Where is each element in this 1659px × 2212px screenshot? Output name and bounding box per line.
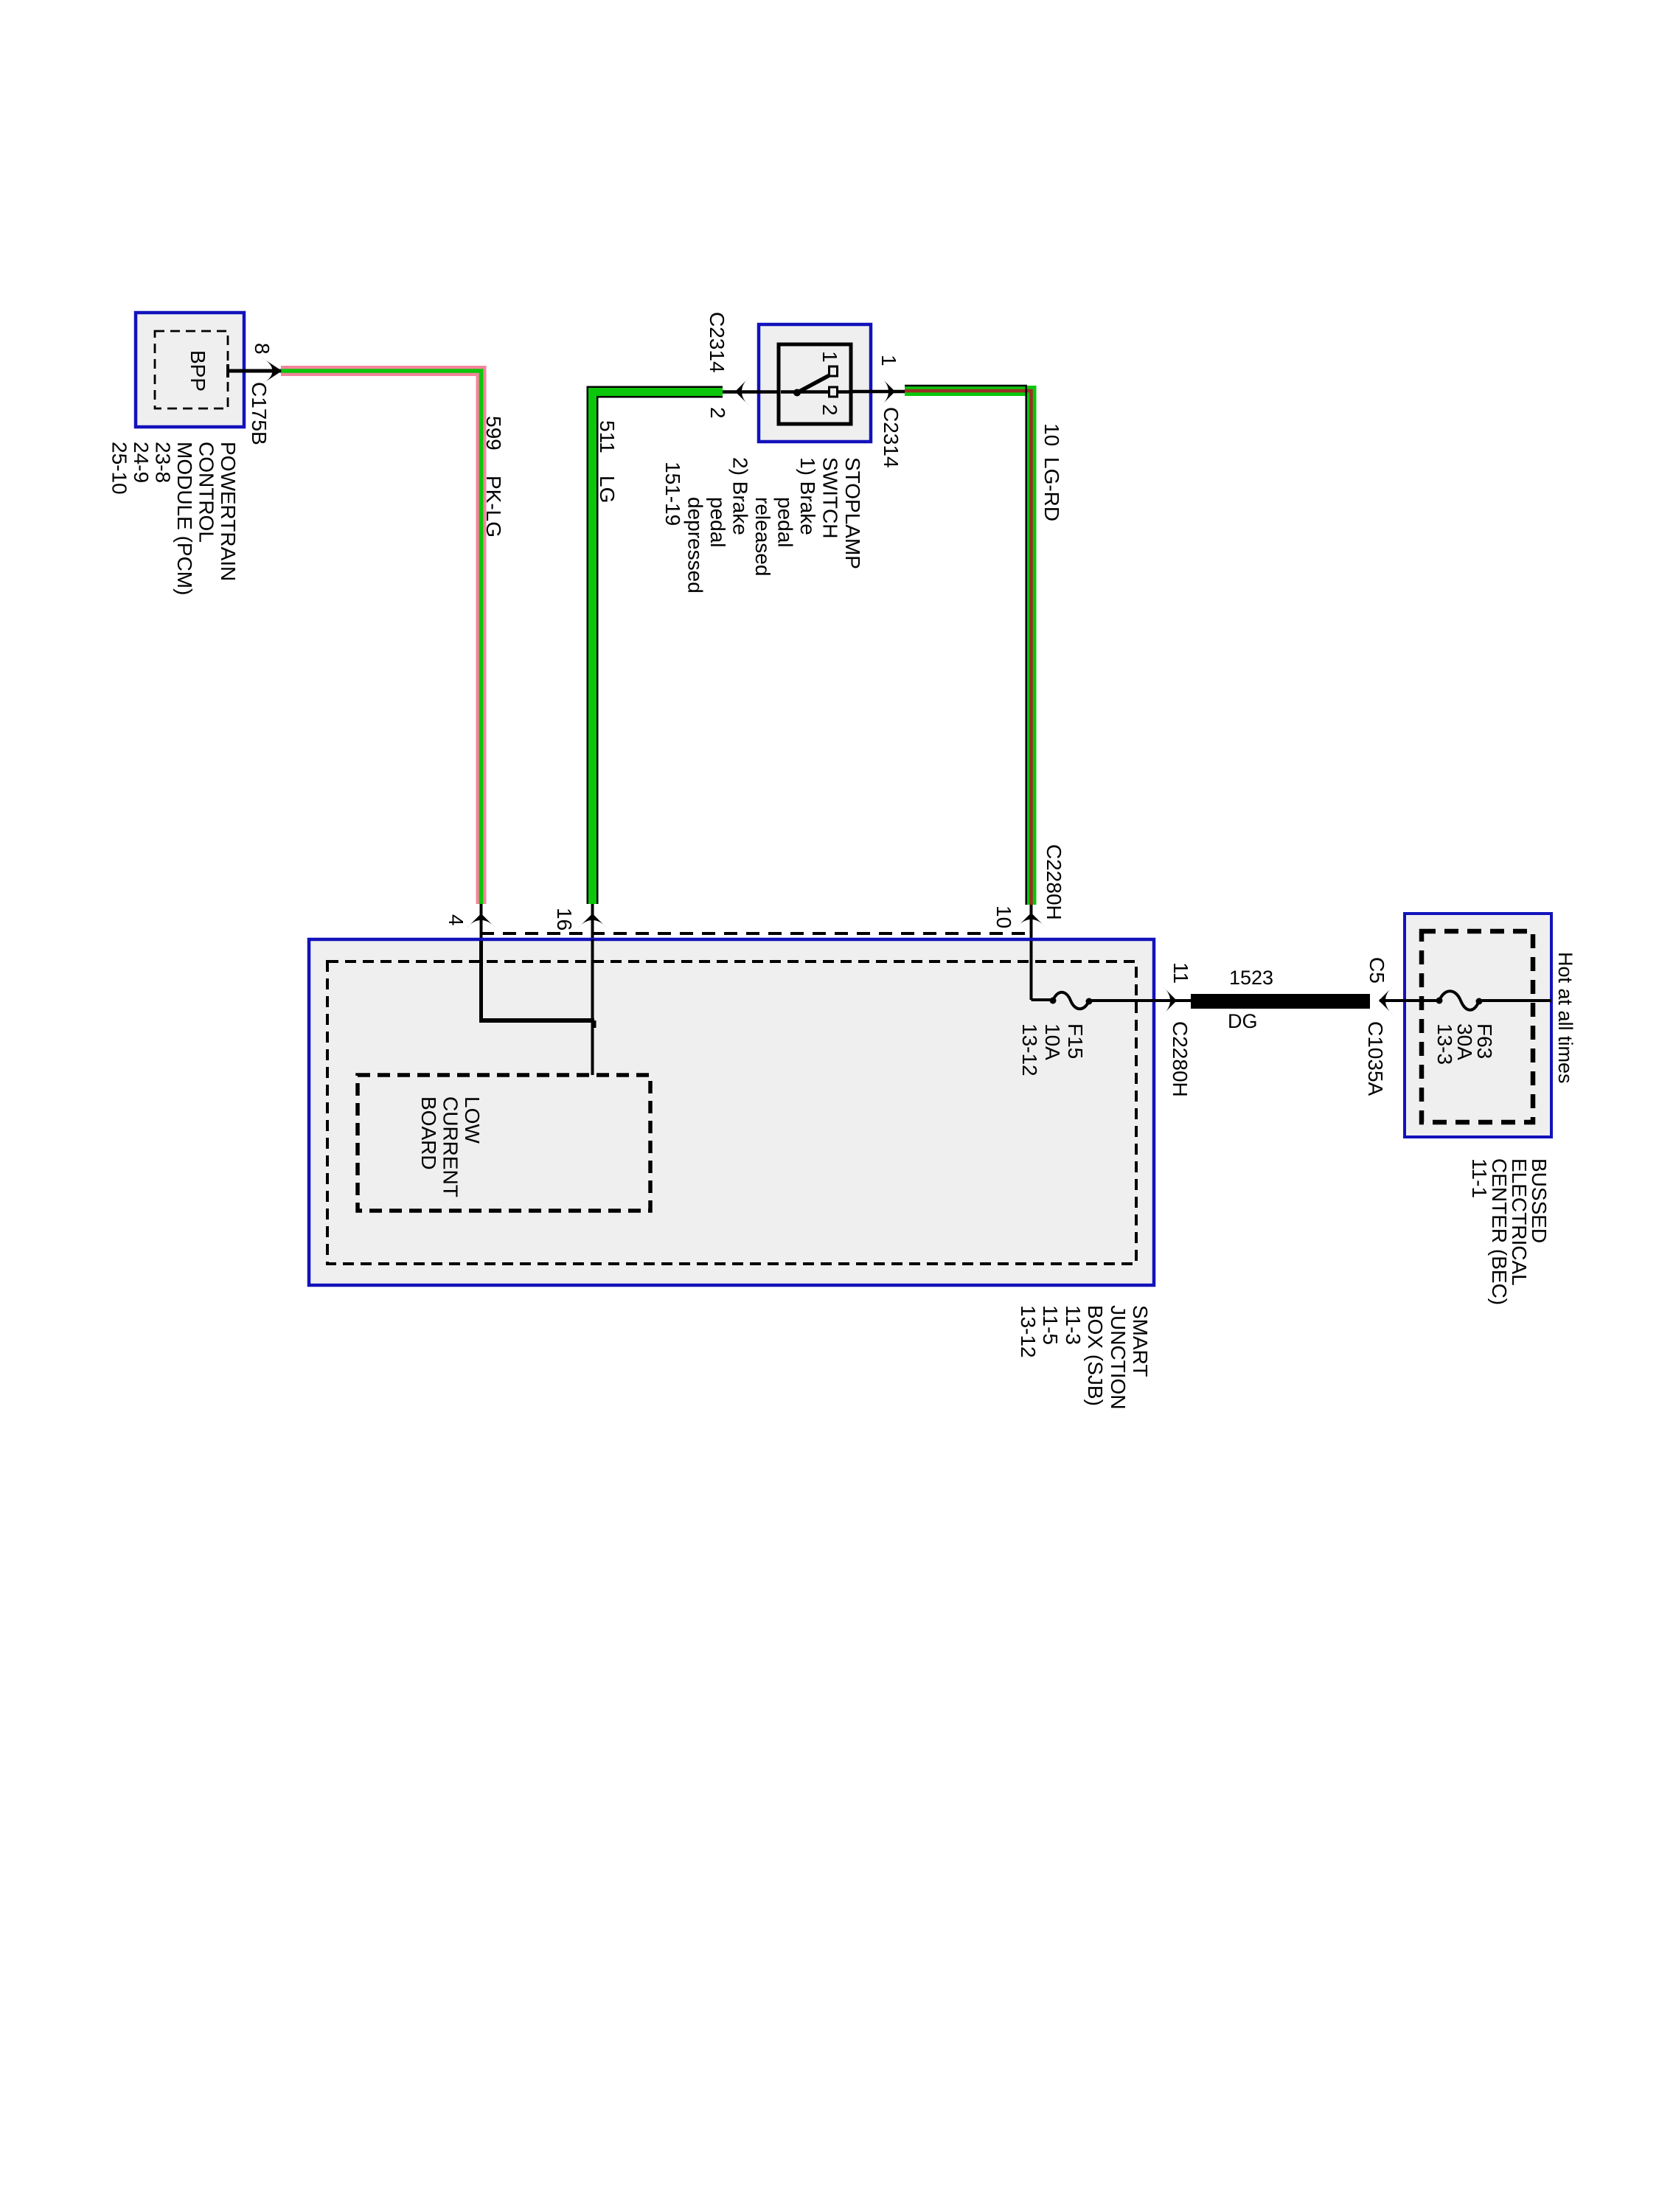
svg-text:4: 4	[445, 914, 467, 926]
svg-text:8: 8	[251, 343, 274, 355]
svg-text:C175B: C175B	[248, 382, 271, 445]
svg-text:2: 2	[706, 407, 729, 419]
svg-text:511: 511	[596, 420, 619, 453]
svg-text:C2280H: C2280H	[1043, 844, 1065, 920]
svg-text:C2314: C2314	[706, 312, 728, 373]
svg-text:DG: DG	[1228, 1010, 1258, 1032]
svg-text:2: 2	[818, 404, 841, 416]
svg-text:C2314: C2314	[880, 407, 902, 468]
svg-text:PK-LG: PK-LG	[482, 476, 505, 538]
svg-text:F63 30A 13-3: F63 30A 13-3	[1433, 1023, 1496, 1065]
svg-text:599: 599	[482, 416, 505, 451]
svg-text:10: 10	[992, 905, 1015, 928]
svg-text:BPP: BPP	[187, 350, 209, 392]
svg-text:C2280H: C2280H	[1169, 1021, 1192, 1097]
svg-text:11: 11	[1169, 962, 1192, 984]
svg-text:C1035A: C1035A	[1364, 1021, 1387, 1096]
svg-text:10: 10	[1040, 423, 1063, 446]
svg-text:1: 1	[877, 355, 900, 366]
svg-text:LG-RD: LG-RD	[1040, 457, 1063, 521]
svg-text:Hot at all times: Hot at all times	[1554, 952, 1576, 1084]
svg-text:16: 16	[553, 908, 576, 931]
svg-text:LG: LG	[596, 476, 619, 503]
svg-text:1523: 1523	[1229, 967, 1273, 989]
svg-text:1: 1	[818, 351, 841, 363]
svg-text:C5: C5	[1366, 957, 1388, 984]
